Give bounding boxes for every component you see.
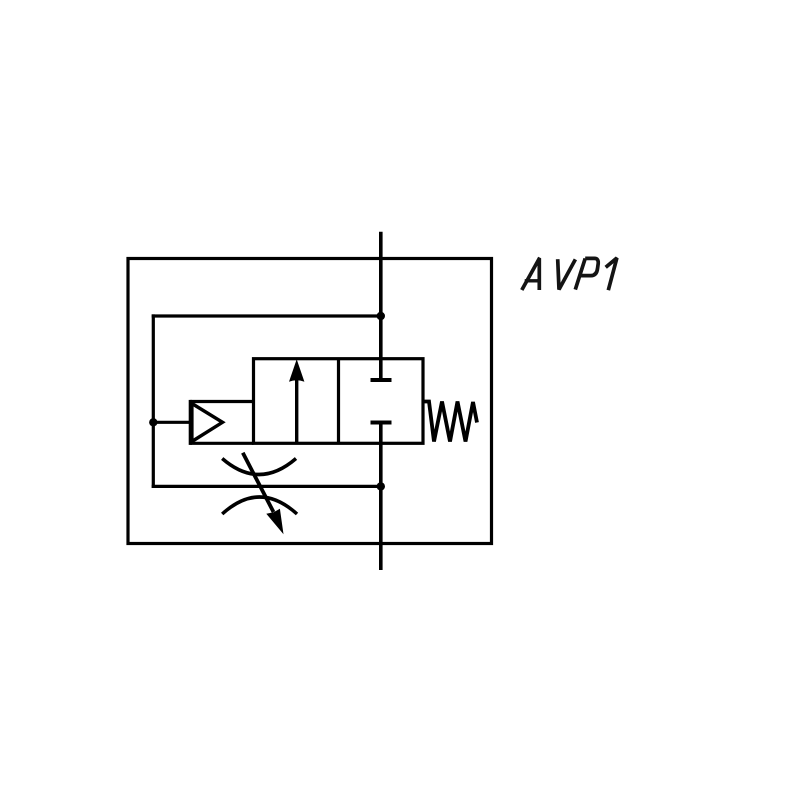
valve block enclosure (outer rectangle)	[128, 259, 492, 544]
wire: pilot branch horizontal	[153, 421, 190, 424]
throttle adjustment arrowhead	[266, 509, 283, 535]
throttle adjustment arrow shaft	[243, 453, 274, 512]
node: junction dot pilot branch	[149, 418, 157, 426]
pilot actuator box left edge	[189, 400, 192, 445]
valve V1 flow path arrow shaft (left cell)	[295, 379, 298, 443]
label AVP1 (letter P)	[575, 258, 598, 289]
node: junction dot lower (main line / lower bypass)	[377, 482, 385, 490]
throttle lower arc	[222, 497, 297, 514]
spring (return spring on right of valve)	[423, 402, 477, 442]
valve V1 blocked port bar top (right cell)	[371, 378, 392, 382]
pilot actuator box bottom edge	[190, 442, 253, 445]
throttle upper arc	[222, 459, 296, 475]
label AVP1 (letter A)	[522, 259, 540, 290]
pilot triangle	[192, 404, 223, 442]
wire: main vertical line upper segment (port P)	[379, 232, 383, 380]
valve V1 position divider	[337, 359, 340, 444]
valve V1 flow path arrowhead	[289, 359, 304, 382]
label AVP1 (letter V)	[558, 259, 576, 289]
wire: lower bypass horizontal	[152, 485, 381, 488]
wire: main vertical line lower segment (port A)	[379, 423, 383, 571]
valve V1 body (2-position envelope)	[254, 359, 424, 444]
label AVP1 (digit 1)	[606, 258, 617, 290]
wire: upper bypass horizontal	[152, 314, 381, 317]
wire: left bypass vertical	[152, 314, 155, 488]
node: junction dot upper (main line / upper bypass)	[377, 312, 385, 320]
valve V1 blocked port bar bottom (right cell)	[371, 421, 392, 425]
pilot actuator box top edge	[190, 400, 253, 403]
